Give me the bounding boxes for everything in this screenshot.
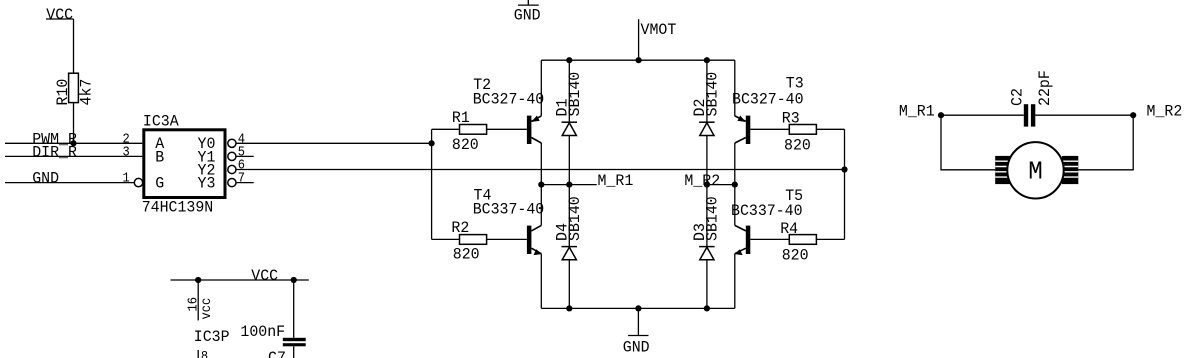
junction motor left xyxy=(938,112,944,118)
svg-text:M_R2: M_R2 xyxy=(1147,102,1183,120)
wire pin 8 xyxy=(197,350,199,358)
svg-text:IC3P: IC3P xyxy=(194,328,230,346)
wire T4 emitter to bottom rail xyxy=(540,254,542,309)
svg-text:R10: R10 xyxy=(54,79,72,106)
wire Y2 output xyxy=(236,169,845,171)
motor M1 body xyxy=(1007,142,1063,198)
svg-text:IC3A: IC3A xyxy=(143,112,180,130)
svg-text:8: 8 xyxy=(201,348,208,358)
wire T3 emitter to top rail xyxy=(734,60,736,116)
svg-text:Y3: Y3 xyxy=(198,174,216,192)
resistor R1 xyxy=(460,125,487,135)
svg-text:820: 820 xyxy=(784,136,811,154)
wire GND input xyxy=(5,182,135,184)
diode D4 xyxy=(562,185,578,309)
motor brush right xyxy=(1062,156,1078,184)
diode D2 xyxy=(699,60,715,184)
wire right feed vertical xyxy=(844,129,846,239)
svg-text:GND: GND xyxy=(623,338,650,356)
svg-text:4k7: 4k7 xyxy=(77,79,95,106)
wire T5 base to R4 xyxy=(750,238,789,240)
svg-text:M_R1: M_R1 xyxy=(598,172,634,190)
wire VMOT stub xyxy=(638,19,640,60)
junction D2 top xyxy=(704,57,710,63)
svg-text:100nF: 100nF xyxy=(240,323,285,341)
junction VMOT xyxy=(636,57,642,63)
svg-text:BC337-40: BC337-40 xyxy=(473,200,545,218)
wire Y1 stub xyxy=(236,155,254,157)
svg-text:SB140: SB140 xyxy=(565,72,583,117)
svg-text:GND: GND xyxy=(32,169,59,187)
wire PWM_R xyxy=(5,142,142,144)
svg-text:C2: C2 xyxy=(1008,88,1026,106)
junction Y2 feed xyxy=(841,166,847,172)
resistor R2 xyxy=(460,235,487,245)
inversion bubble pin 1 G xyxy=(134,178,142,186)
wire to R1 xyxy=(432,128,460,130)
svg-text:M: M xyxy=(1028,158,1043,187)
resistor R3 xyxy=(789,125,816,135)
wire Y0 output xyxy=(236,142,432,144)
junction D1/D4 xyxy=(566,182,572,188)
svg-text:SB140: SB140 xyxy=(703,72,721,117)
bubble pin 7 xyxy=(228,179,236,187)
junction T3/T5 xyxy=(732,182,738,188)
wire VCC rail (IC3P) xyxy=(171,279,309,281)
svg-text:820: 820 xyxy=(453,245,480,263)
svg-text:SB140: SB140 xyxy=(565,196,583,241)
wire R2 to T4 base xyxy=(487,238,527,240)
transistor T4 body xyxy=(527,225,542,255)
junction GND bottom xyxy=(635,305,641,311)
motor brush left xyxy=(995,156,1011,184)
op IC3A box 74HC139 xyxy=(144,130,225,198)
wire T4 collector up xyxy=(540,185,542,226)
junction T2/T4 xyxy=(538,182,544,188)
wire R1 to T2 base xyxy=(487,128,527,130)
wire left feed vertical xyxy=(431,129,433,239)
transistor T3 body xyxy=(735,116,751,145)
wire R3 to right feed xyxy=(816,128,844,130)
wire T2 emitter to top rail xyxy=(540,60,542,116)
wire M_R2 rail xyxy=(707,184,735,186)
bubble pin 6 xyxy=(228,165,236,173)
wire DIR_R xyxy=(5,155,142,157)
svg-text:R3: R3 xyxy=(782,109,800,127)
power symbol VCC (top-left) xyxy=(46,6,74,24)
svg-text:R2: R2 xyxy=(451,219,469,237)
junction Y0 feed xyxy=(429,140,435,146)
wire R10 to PWM_R net xyxy=(73,103,75,144)
ground symbol top (cut) xyxy=(514,0,541,24)
svg-text:C7: C7 xyxy=(268,349,286,358)
wire VCC to R10 xyxy=(73,19,75,73)
svg-text:3: 3 xyxy=(123,144,130,160)
wire pin 16 xyxy=(197,280,199,320)
svg-text:BC327-40: BC327-40 xyxy=(473,90,545,108)
wire T3 base to R3 xyxy=(750,128,789,130)
wire M_R1 rail xyxy=(541,184,596,186)
svg-text:B: B xyxy=(155,148,164,166)
svg-text:BC327-40: BC327-40 xyxy=(732,90,804,108)
junction D4 bottom xyxy=(566,305,572,311)
bottom rail xyxy=(541,307,735,309)
wire motor right drop xyxy=(1078,115,1133,170)
svg-text:R1: R1 xyxy=(452,109,470,127)
svg-text:7: 7 xyxy=(238,170,245,186)
svg-text:VCC: VCC xyxy=(251,267,278,285)
svg-text:vcc: vcc xyxy=(198,298,214,320)
bubble pin 5 xyxy=(228,152,236,160)
resistor R4 xyxy=(789,235,816,245)
wire motor top left xyxy=(941,114,1024,116)
wire motor left drop xyxy=(941,115,995,170)
svg-text:VCC: VCC xyxy=(46,6,73,24)
junction motor right xyxy=(1130,112,1136,118)
junction on PWM_R xyxy=(70,140,76,146)
transistor T5 body xyxy=(734,225,750,255)
junction D3 bottom xyxy=(704,305,710,311)
top rail VMOT xyxy=(541,59,735,61)
wire T2 collector down xyxy=(540,143,542,185)
junction D2/D3 xyxy=(704,182,710,188)
svg-text:M_R1: M_R1 xyxy=(899,102,935,120)
svg-text:BC337-40: BC337-40 xyxy=(731,201,803,219)
wire R4 to right feed xyxy=(816,238,844,240)
diode D1 xyxy=(562,60,578,184)
capacitor C2 xyxy=(1024,104,1036,126)
diode D3 xyxy=(699,185,715,309)
svg-text:GND: GND xyxy=(514,6,541,24)
svg-text:SB140: SB140 xyxy=(703,196,721,241)
svg-text:74HC139N: 74HC139N xyxy=(142,198,214,216)
wire C7 top xyxy=(293,280,295,338)
svg-text:R4: R4 xyxy=(780,220,798,238)
svg-text:820: 820 xyxy=(452,136,479,154)
wire T5 emitter to bottom rail xyxy=(734,254,736,309)
junction C7 xyxy=(291,277,297,283)
capacitor C7 xyxy=(283,338,306,358)
wire Y3 stub xyxy=(236,182,254,184)
svg-text:G: G xyxy=(155,174,164,192)
svg-text:820: 820 xyxy=(782,246,809,264)
bubble pin 4 xyxy=(228,139,236,147)
wire to R2 xyxy=(432,238,460,240)
transistor T2 body xyxy=(527,116,541,145)
svg-text:22pF: 22pF xyxy=(1036,70,1054,106)
svg-text:DIR_R: DIR_R xyxy=(32,143,77,161)
junction D1 top xyxy=(566,57,572,63)
wire motor top right xyxy=(1035,114,1133,116)
svg-text:M_R2: M_R2 xyxy=(684,172,720,190)
svg-text:1: 1 xyxy=(123,170,131,186)
svg-text:VMOT: VMOT xyxy=(641,20,677,38)
wire T3 collector down xyxy=(734,143,736,185)
junction pin16 xyxy=(195,277,201,283)
ground symbol bottom xyxy=(623,308,650,356)
wire T5 collector up xyxy=(734,185,736,226)
resistor R10 xyxy=(69,73,79,102)
